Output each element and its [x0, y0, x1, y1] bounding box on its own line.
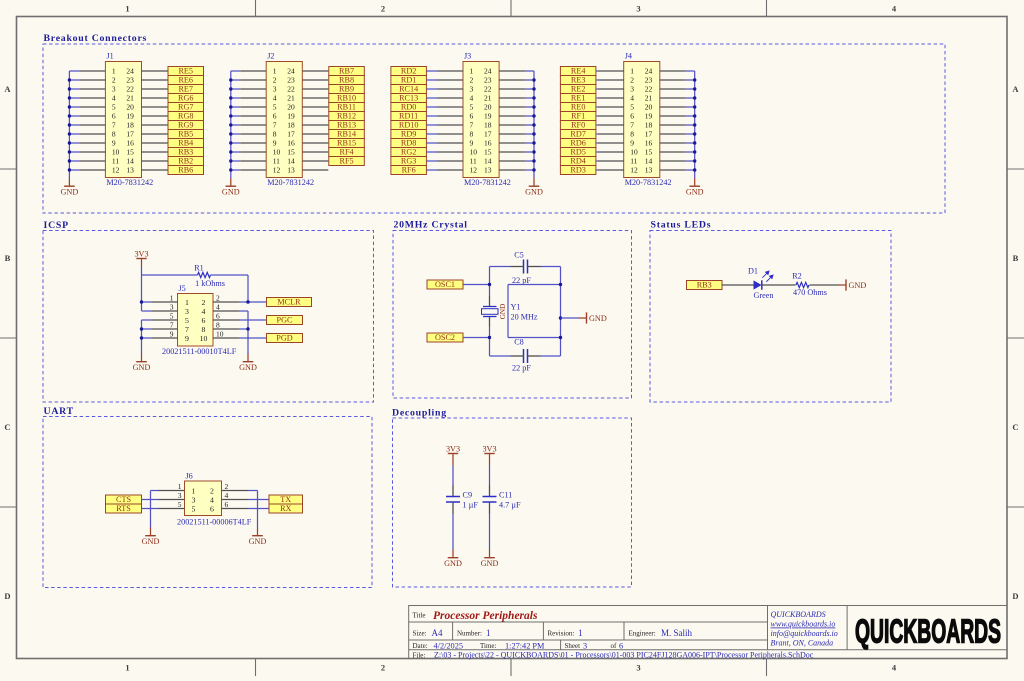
port RB9 — [329, 85, 365, 94]
port RB3 — [687, 281, 723, 290]
svg-text:GND: GND — [481, 559, 499, 568]
junctions J3 bus — [532, 78, 535, 171]
ground UART left — [142, 528, 160, 546]
svg-text:14: 14 — [126, 157, 134, 166]
svg-text:GND: GND — [142, 537, 160, 546]
junctions J1 bus — [68, 78, 71, 171]
svg-text:6: 6 — [202, 316, 206, 325]
port RD8 — [391, 139, 427, 148]
connector J1 — [105, 52, 153, 188]
svg-text:J5: J5 — [179, 284, 186, 293]
svg-text:2: 2 — [210, 486, 214, 495]
svg-text:22 pF: 22 pF — [512, 364, 531, 373]
svg-text:4: 4 — [225, 491, 229, 500]
port RF5 — [329, 157, 365, 166]
svg-text:16: 16 — [126, 139, 134, 148]
svg-text:15: 15 — [126, 148, 134, 157]
port PGC — [267, 316, 303, 325]
port RG2 — [391, 148, 427, 157]
port RB15 — [329, 139, 365, 148]
section box UART — [43, 417, 372, 588]
svg-text:3: 3 — [178, 491, 182, 500]
wire RTS — [142, 508, 159, 510]
svg-text:16: 16 — [645, 139, 653, 148]
wire GND bus J2 — [231, 71, 240, 178]
svg-text:MCLR: MCLR — [277, 298, 301, 307]
wire C9 to GND — [452, 503, 454, 550]
svg-text:OSC1: OSC1 — [435, 280, 455, 289]
wire GND bus J3 — [525, 71, 534, 178]
svg-text:GND: GND — [525, 187, 543, 196]
svg-text:Decoupling: Decoupling — [392, 407, 447, 418]
pin numbers J5 — [170, 294, 224, 339]
svg-text:M20-7831242: M20-7831242 — [106, 178, 153, 187]
svg-text:8: 8 — [202, 325, 206, 334]
port RB7 — [329, 67, 365, 76]
svg-text:2: 2 — [216, 294, 220, 303]
junctions left GND — [140, 327, 143, 339]
junctions J4 bus — [693, 78, 696, 171]
ground J2 bus — [222, 178, 240, 196]
capacitor C8 — [512, 338, 531, 373]
svg-text:B: B — [1013, 253, 1019, 263]
ground J4 bus — [686, 178, 704, 196]
port RG3 — [391, 157, 427, 166]
wire Y1 case frame — [508, 285, 561, 338]
svg-text:15: 15 — [645, 148, 653, 157]
svg-text:1: 1 — [185, 298, 189, 307]
pins J2 — [240, 71, 328, 170]
svg-text:4: 4 — [210, 495, 214, 504]
port RD9 — [391, 130, 427, 139]
svg-text:4/2/2025: 4/2/2025 — [434, 641, 464, 650]
svg-text:2: 2 — [112, 76, 116, 85]
port RB8 — [329, 76, 365, 85]
svg-text:10: 10 — [216, 330, 224, 339]
svg-text:24: 24 — [484, 67, 492, 76]
svg-text:RC14: RC14 — [399, 85, 418, 94]
svg-text:14: 14 — [645, 157, 653, 166]
capacitor C9 — [446, 491, 478, 510]
svg-text:File:: File: — [413, 651, 426, 659]
svg-text:Title: Title — [413, 612, 426, 620]
svg-text:3: 3 — [273, 85, 277, 94]
port RE1 — [560, 94, 596, 103]
svg-text:10: 10 — [112, 148, 120, 157]
title block texts — [413, 610, 814, 660]
port RD4 — [560, 157, 596, 166]
svg-text:12: 12 — [273, 166, 281, 175]
wire OSC1 — [463, 284, 490, 286]
wire CTS — [142, 499, 159, 501]
svg-text:21: 21 — [126, 94, 134, 103]
svg-text:10: 10 — [200, 334, 208, 343]
port MCLR — [267, 298, 312, 307]
svg-text:22 pF: 22 pF — [512, 276, 531, 285]
svg-text:RD9: RD9 — [401, 130, 416, 139]
svg-text:RD7: RD7 — [570, 130, 585, 139]
svg-text:14: 14 — [484, 157, 492, 166]
svg-text:Green: Green — [753, 291, 773, 300]
svg-text:3: 3 — [583, 641, 587, 650]
svg-text:2: 2 — [381, 4, 385, 14]
svg-text:RB4: RB4 — [178, 139, 193, 148]
svg-text:12: 12 — [630, 166, 638, 175]
svg-text:11: 11 — [273, 157, 280, 166]
svg-text:20: 20 — [126, 103, 134, 112]
svg-text:RB3: RB3 — [697, 281, 712, 290]
svg-text:19: 19 — [645, 112, 653, 121]
svg-text:24: 24 — [287, 67, 295, 76]
svg-text:6: 6 — [619, 641, 623, 650]
svg-text:RG9: RG9 — [178, 121, 193, 130]
svg-text:GND: GND — [849, 281, 867, 290]
svg-text:7: 7 — [470, 121, 474, 130]
svg-text:RD10: RD10 — [399, 121, 419, 130]
wire R1 to pin2 / MCLR node — [211, 275, 267, 302]
svg-text:Processor Peripherals: Processor Peripherals — [433, 610, 538, 622]
svg-text:23: 23 — [287, 76, 295, 85]
port RD0 — [391, 103, 427, 112]
svg-text:RD4: RD4 — [570, 157, 585, 166]
junction right GND pin8 — [246, 327, 249, 330]
svg-text:RE2: RE2 — [571, 85, 586, 94]
svg-text:C9: C9 — [463, 491, 473, 500]
svg-text:3: 3 — [470, 85, 474, 94]
svg-text:9: 9 — [112, 139, 116, 148]
svg-text:J2: J2 — [267, 52, 274, 61]
port RD5 — [560, 148, 596, 157]
port RD6 — [560, 139, 596, 148]
svg-text:21: 21 — [645, 94, 653, 103]
svg-text:RC13: RC13 — [399, 94, 418, 103]
svg-text:GND: GND — [133, 363, 151, 372]
port RG8 — [168, 112, 204, 121]
ground decoupling C11 — [481, 550, 499, 568]
wire J4 label links — [596, 71, 598, 170]
svg-text:470 Ohms: 470 Ohms — [793, 288, 827, 297]
port RB14 — [329, 130, 365, 139]
svg-text:RB10: RB10 — [337, 94, 356, 103]
port RG6 — [168, 94, 204, 103]
svg-text:C: C — [4, 422, 10, 432]
capacitor C5 — [512, 250, 531, 285]
svg-text:M20-7831242: M20-7831242 — [267, 178, 314, 187]
svg-text:10: 10 — [630, 148, 638, 157]
port RB3 — [168, 148, 204, 157]
svg-text:1: 1 — [273, 67, 277, 76]
ground UART right — [249, 528, 267, 546]
svg-text:10: 10 — [273, 148, 281, 157]
svg-text:21: 21 — [484, 94, 492, 103]
svg-text:3: 3 — [170, 303, 174, 312]
wire J3 label links — [426, 71, 437, 170]
svg-text:5: 5 — [170, 312, 174, 321]
svg-text:RD5: RD5 — [570, 148, 585, 157]
port RF0 — [560, 121, 596, 130]
section box 20MHz Crystal — [393, 231, 632, 399]
port OSC1 — [427, 280, 463, 289]
svg-text:UART: UART — [44, 406, 74, 417]
svg-text:13: 13 — [287, 166, 295, 175]
svg-text:GND: GND — [249, 537, 267, 546]
svg-text:6: 6 — [112, 112, 116, 121]
svg-text:22: 22 — [287, 85, 295, 94]
svg-text:www.quickboards.io: www.quickboards.io — [771, 620, 836, 629]
svg-text:19: 19 — [287, 112, 295, 121]
port RTS — [106, 504, 142, 513]
svg-text:2: 2 — [202, 298, 206, 307]
svg-text:RB8: RB8 — [339, 76, 354, 85]
svg-text:7: 7 — [630, 121, 634, 130]
svg-text:RB2: RB2 — [178, 157, 193, 166]
svg-text:RB12: RB12 — [337, 112, 356, 121]
svg-text:Brant, ON, Canada: Brant, ON, Canada — [771, 639, 834, 648]
port RC14 — [391, 85, 427, 94]
svg-text:RF4: RF4 — [339, 148, 353, 157]
svg-text:J6: J6 — [186, 472, 193, 481]
connector J2 — [266, 52, 314, 188]
wire left GND pins 5,7,9 — [142, 320, 152, 354]
svg-text:8: 8 — [470, 130, 474, 139]
svg-text:RB3: RB3 — [178, 148, 193, 157]
wire pin2 to GND — [248, 491, 258, 528]
wire top rail C5 — [490, 266, 561, 268]
svg-text:22: 22 — [484, 85, 492, 94]
svg-text:1: 1 — [178, 482, 182, 491]
svg-text:20: 20 — [287, 103, 295, 112]
wire D1 to R2 — [762, 284, 796, 286]
svg-text:C: C — [1012, 422, 1018, 432]
svg-text:24: 24 — [645, 67, 653, 76]
ground status — [846, 279, 866, 290]
port RC13 — [391, 94, 427, 103]
svg-text:RF0: RF0 — [571, 121, 585, 130]
svg-text:7: 7 — [170, 321, 174, 330]
svg-text:13: 13 — [484, 166, 492, 175]
svg-text:17: 17 — [126, 130, 134, 139]
svg-text:16: 16 — [287, 139, 295, 148]
svg-text:J3: J3 — [464, 52, 471, 61]
svg-text:RD0: RD0 — [401, 103, 416, 112]
svg-text:C5: C5 — [514, 250, 524, 259]
svg-text:4: 4 — [216, 303, 220, 312]
svg-text:GND: GND — [499, 304, 507, 320]
svg-text:2: 2 — [630, 76, 634, 85]
wire RX — [248, 508, 270, 510]
section box Decoupling — [393, 418, 632, 587]
svg-text:RB15: RB15 — [337, 139, 356, 148]
svg-text:3: 3 — [192, 495, 196, 504]
svg-text:info@quickboards.io: info@quickboards.io — [771, 629, 838, 638]
svg-text:RD6: RD6 — [570, 139, 585, 148]
svg-text:19: 19 — [484, 112, 492, 121]
svg-text:J1: J1 — [106, 52, 113, 61]
resistor R1 — [194, 263, 225, 288]
svg-text:13: 13 — [645, 166, 653, 175]
svg-text:18: 18 — [287, 121, 295, 130]
svg-text:2: 2 — [273, 76, 277, 85]
svg-text:1: 1 — [125, 663, 129, 673]
svg-text:GND: GND — [589, 314, 607, 323]
wire right GND pins 4,8 — [239, 311, 248, 354]
svg-text:RG6: RG6 — [178, 94, 193, 103]
svg-text:RE7: RE7 — [178, 85, 193, 94]
wire PGC — [239, 319, 267, 321]
svg-text:RE6: RE6 — [178, 76, 193, 85]
wire right vertical crystal net — [560, 267, 562, 357]
svg-text:4: 4 — [470, 94, 474, 103]
connector J6 — [177, 472, 252, 527]
svg-text:9: 9 — [630, 139, 634, 148]
svg-text:11: 11 — [630, 157, 637, 166]
svg-text:1: 1 — [170, 294, 174, 303]
svg-text:1: 1 — [192, 486, 196, 495]
port CTS — [106, 495, 142, 504]
ground ICSP right — [239, 354, 257, 372]
svg-text:1: 1 — [630, 67, 634, 76]
svg-text:1: 1 — [486, 628, 491, 638]
svg-text:20021511-00010T4LF: 20021511-00010T4LF — [162, 347, 237, 356]
svg-text:PGC: PGC — [277, 316, 293, 325]
svg-text:18: 18 — [126, 121, 134, 130]
port RB6 — [168, 166, 204, 175]
svg-text:D1: D1 — [748, 267, 758, 276]
svg-text:RB9: RB9 — [339, 85, 354, 94]
svg-text:RD11: RD11 — [399, 112, 418, 121]
svg-text:Date:: Date: — [413, 642, 428, 650]
svg-text:6: 6 — [210, 504, 214, 513]
svg-text:23: 23 — [645, 76, 653, 85]
svg-text:9: 9 — [185, 334, 189, 343]
svg-text:24: 24 — [126, 67, 134, 76]
svg-text:TX: TX — [280, 495, 291, 504]
svg-text:13: 13 — [126, 166, 134, 175]
wire 3V3 to pins 1,3 — [142, 275, 152, 311]
svg-text:5: 5 — [192, 504, 196, 513]
svg-text:A: A — [1012, 84, 1019, 94]
port RX — [269, 504, 303, 513]
svg-text:11: 11 — [470, 157, 477, 166]
svg-text:J4: J4 — [625, 52, 632, 61]
svg-text:12: 12 — [470, 166, 478, 175]
svg-text:19: 19 — [126, 112, 134, 121]
port RG7 — [168, 103, 204, 112]
port RE3 — [560, 76, 596, 85]
svg-text:7: 7 — [273, 121, 277, 130]
connector J3 — [463, 52, 511, 188]
svg-text:8: 8 — [112, 130, 116, 139]
svg-text:RG2: RG2 — [401, 148, 416, 157]
svg-text:Revision:: Revision: — [548, 629, 575, 637]
svg-text:GND: GND — [686, 187, 704, 196]
svg-text:20021511-00006T4LF: 20021511-00006T4LF — [177, 517, 252, 526]
svg-text:CTS: CTS — [116, 495, 131, 504]
port RF4 — [329, 148, 365, 157]
svg-text:7: 7 — [112, 121, 116, 130]
svg-text:10: 10 — [470, 148, 478, 157]
svg-text:6: 6 — [216, 312, 220, 321]
svg-text:4: 4 — [112, 94, 116, 103]
ground J3 bus — [525, 178, 543, 196]
svg-text:6: 6 — [273, 112, 277, 121]
svg-text:RX: RX — [280, 504, 291, 513]
svg-text:14: 14 — [287, 157, 295, 166]
svg-text:11: 11 — [112, 157, 119, 166]
svg-text:RD3: RD3 — [570, 166, 585, 175]
svg-text:5: 5 — [470, 103, 474, 112]
port RD3 — [560, 166, 596, 175]
svg-text:17: 17 — [645, 130, 653, 139]
wire GND bus J1 — [69, 71, 79, 178]
company info cell — [771, 610, 838, 648]
port RB12 — [329, 112, 365, 121]
port OSC2 — [427, 333, 463, 342]
svg-text:3V3: 3V3 — [134, 250, 148, 259]
svg-text:5: 5 — [178, 500, 182, 509]
wire to GND crystal — [561, 317, 587, 319]
svg-text:15: 15 — [287, 148, 295, 157]
svg-text:5: 5 — [273, 103, 277, 112]
wire GND bus J4 — [686, 71, 695, 178]
pins J5 — [152, 302, 240, 338]
section box ICSP — [43, 231, 374, 403]
wire PGD — [239, 337, 267, 339]
svg-text:5: 5 — [185, 316, 189, 325]
svg-text:Number:: Number: — [457, 629, 482, 637]
svg-text:1 µF: 1 µF — [463, 500, 479, 509]
svg-text:RG8: RG8 — [178, 112, 193, 121]
port RB5 — [168, 130, 204, 139]
port RE5 — [168, 67, 204, 76]
svg-text:R1: R1 — [194, 263, 204, 272]
svg-text:Z:\03 - Projects\22 - QUICKBOA: Z:\03 - Projects\22 - QUICKBOARDS\01 - P… — [434, 651, 814, 660]
svg-text:8: 8 — [216, 321, 220, 330]
svg-text:Time:: Time: — [480, 642, 497, 650]
port TX — [269, 495, 303, 504]
connector J4 — [624, 52, 672, 188]
svg-text:of: of — [611, 642, 618, 650]
svg-text:RB13: RB13 — [337, 121, 356, 130]
port RD7 — [560, 130, 596, 139]
svg-text:RB6: RB6 — [178, 166, 193, 175]
svg-text:RF6: RF6 — [402, 166, 416, 175]
svg-text:22: 22 — [645, 85, 653, 94]
port RB10 — [329, 94, 365, 103]
junction MCLR node — [246, 300, 249, 303]
svg-text:RG3: RG3 — [401, 157, 416, 166]
svg-text:23: 23 — [126, 76, 134, 85]
svg-text:4.7 µF: 4.7 µF — [499, 500, 521, 509]
svg-text:21: 21 — [287, 94, 295, 103]
svg-text:22: 22 — [126, 85, 134, 94]
svg-text:2: 2 — [225, 482, 229, 491]
svg-text:20: 20 — [645, 103, 653, 112]
wire TX — [248, 499, 270, 501]
wire pin1 to GND — [151, 491, 159, 528]
power 3V3 decoupling C9 — [446, 445, 460, 454]
port RD2 — [391, 67, 427, 76]
svg-text:M20-7831242: M20-7831242 — [464, 178, 511, 187]
svg-text:RE1: RE1 — [571, 94, 586, 103]
port RB11 — [329, 103, 365, 112]
wire RB3 to D1 — [722, 284, 754, 286]
svg-text:1: 1 — [578, 628, 583, 638]
svg-text:GND: GND — [61, 187, 79, 196]
svg-text:1: 1 — [112, 67, 116, 76]
svg-text:A: A — [4, 84, 11, 94]
svg-text:5: 5 — [112, 103, 116, 112]
